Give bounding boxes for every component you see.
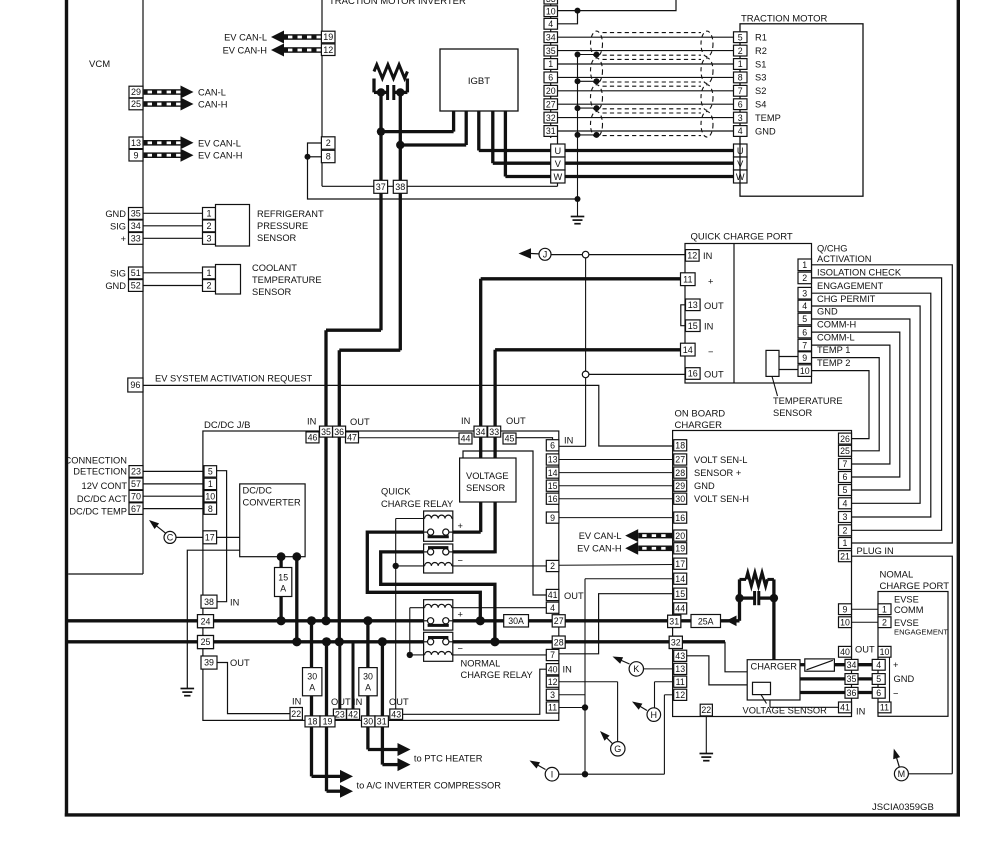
svg-text:2: 2 xyxy=(206,221,211,231)
svg-text:14: 14 xyxy=(675,574,685,584)
svg-text:14: 14 xyxy=(683,345,693,355)
svg-text:CHARGE PORT: CHARGE PORT xyxy=(880,581,950,592)
svg-text:SENSOR: SENSOR xyxy=(773,408,813,418)
svg-text:3: 3 xyxy=(738,113,743,123)
svg-text:1: 1 xyxy=(802,260,807,270)
svg-text:ISOLATION CHECK: ISOLATION CHECK xyxy=(817,268,902,278)
svg-text:7: 7 xyxy=(738,86,743,96)
svg-text:TRACTION MOTOR: TRACTION MOTOR xyxy=(741,14,828,25)
svg-text:43: 43 xyxy=(675,651,685,661)
svg-text:12: 12 xyxy=(675,690,685,700)
svg-text:G: G xyxy=(614,744,621,754)
svg-text:30A: 30A xyxy=(508,616,524,626)
svg-text:33: 33 xyxy=(546,0,556,4)
svg-text:I: I xyxy=(551,769,554,779)
svg-text:5: 5 xyxy=(843,485,848,495)
svg-text:+: + xyxy=(893,660,898,670)
svg-text:H: H xyxy=(651,710,658,720)
svg-text:12: 12 xyxy=(548,677,558,687)
svg-text:17: 17 xyxy=(205,532,215,542)
svg-text:22: 22 xyxy=(291,709,301,719)
svg-text:−: − xyxy=(893,689,898,699)
svg-text:REFRIGERANT: REFRIGERANT xyxy=(257,209,324,219)
svg-text:IN: IN xyxy=(292,697,301,707)
svg-text:CAN-H: CAN-H xyxy=(198,100,227,110)
svg-text:10: 10 xyxy=(800,366,810,376)
svg-text:OUT: OUT xyxy=(506,416,526,426)
svg-text:35: 35 xyxy=(546,46,556,56)
svg-text:CONNECTION: CONNECTION xyxy=(65,455,128,465)
svg-text:9: 9 xyxy=(133,150,138,160)
svg-text:OUT: OUT xyxy=(389,697,409,707)
svg-text:3: 3 xyxy=(843,512,848,522)
svg-text:4: 4 xyxy=(802,301,807,311)
svg-text:S3: S3 xyxy=(755,73,766,83)
svg-text:GND: GND xyxy=(694,481,715,491)
svg-text:2: 2 xyxy=(738,46,743,56)
svg-text:38: 38 xyxy=(395,182,405,192)
svg-text:17: 17 xyxy=(675,559,685,569)
svg-text:EV CAN-L: EV CAN-L xyxy=(198,138,241,148)
svg-text:11: 11 xyxy=(683,274,692,284)
svg-text:V: V xyxy=(737,159,744,169)
svg-text:COMM-L: COMM-L xyxy=(817,333,855,343)
svg-text:2: 2 xyxy=(550,561,555,571)
svg-text:44: 44 xyxy=(675,604,685,614)
svg-text:4: 4 xyxy=(738,126,743,136)
svg-text:6: 6 xyxy=(802,327,807,337)
svg-text:22: 22 xyxy=(701,705,711,715)
svg-text:37: 37 xyxy=(376,182,386,192)
svg-text:OUT IN: OUT IN xyxy=(331,697,362,707)
svg-text:+: + xyxy=(458,521,463,531)
svg-text:35: 35 xyxy=(847,674,857,684)
svg-text:44: 44 xyxy=(461,434,471,444)
svg-text:33: 33 xyxy=(131,234,141,244)
svg-text:29: 29 xyxy=(131,87,141,97)
svg-text:28: 28 xyxy=(675,468,685,478)
svg-text:30: 30 xyxy=(675,494,685,504)
svg-text:9: 9 xyxy=(843,604,848,614)
svg-text:47: 47 xyxy=(347,433,357,443)
svg-text:A: A xyxy=(365,683,371,693)
svg-text:6: 6 xyxy=(548,73,553,83)
svg-text:7: 7 xyxy=(843,459,848,469)
svg-text:CHARGE RELAY: CHARGE RELAY xyxy=(381,499,453,509)
svg-text:15: 15 xyxy=(548,481,558,491)
svg-text:41: 41 xyxy=(548,590,558,600)
svg-text:OUT: OUT xyxy=(855,644,875,654)
svg-text:V: V xyxy=(555,159,562,169)
svg-text:5: 5 xyxy=(738,32,743,42)
svg-text:CAN-L: CAN-L xyxy=(198,88,226,98)
svg-text:25: 25 xyxy=(840,446,850,456)
svg-text:EV CAN-L: EV CAN-L xyxy=(224,32,267,42)
svg-text:CONVERTER: CONVERTER xyxy=(243,498,301,508)
svg-text:36: 36 xyxy=(847,688,857,698)
svg-text:ON BOARD: ON BOARD xyxy=(675,409,726,420)
svg-text:13: 13 xyxy=(548,455,558,465)
svg-text:OUT: OUT xyxy=(350,417,370,427)
svg-text:13: 13 xyxy=(688,300,698,310)
svg-text:11: 11 xyxy=(676,677,685,687)
svg-text:27: 27 xyxy=(554,616,564,626)
svg-text:GND: GND xyxy=(105,209,126,219)
svg-text:C: C xyxy=(167,533,174,543)
svg-text:46: 46 xyxy=(308,433,318,443)
svg-text:5: 5 xyxy=(802,314,807,324)
svg-text:31: 31 xyxy=(669,617,679,627)
svg-text:EV CAN-H: EV CAN-H xyxy=(223,45,267,55)
svg-text:13: 13 xyxy=(675,664,685,674)
svg-text:6: 6 xyxy=(550,440,555,450)
svg-text:SENSOR: SENSOR xyxy=(257,233,297,243)
svg-text:8: 8 xyxy=(326,152,331,162)
svg-text:40: 40 xyxy=(840,647,850,657)
svg-text:IN: IN xyxy=(703,251,712,261)
svg-text:1: 1 xyxy=(882,604,887,614)
svg-text:W: W xyxy=(554,172,563,182)
svg-text:3: 3 xyxy=(802,288,807,298)
svg-text:18: 18 xyxy=(675,440,685,450)
svg-text:3: 3 xyxy=(550,690,555,700)
svg-text:COMM-H: COMM-H xyxy=(817,320,856,330)
svg-text:12V CONT: 12V CONT xyxy=(82,481,128,491)
svg-text:EV CAN-H: EV CAN-H xyxy=(577,544,621,554)
svg-text:IGBT: IGBT xyxy=(468,76,490,87)
svg-text:15: 15 xyxy=(278,573,288,583)
svg-text:19: 19 xyxy=(323,32,333,42)
svg-text:38: 38 xyxy=(204,597,214,607)
svg-text:20: 20 xyxy=(546,86,556,96)
svg-text:27: 27 xyxy=(675,455,685,465)
svg-text:15: 15 xyxy=(688,321,698,331)
svg-text:OUT: OUT xyxy=(704,370,724,380)
svg-text:52: 52 xyxy=(131,281,141,291)
svg-text:SIG: SIG xyxy=(110,268,126,278)
svg-text:U: U xyxy=(555,146,562,156)
svg-text:IN: IN xyxy=(704,322,713,332)
svg-text:27: 27 xyxy=(546,99,556,109)
svg-text:J: J xyxy=(543,250,548,260)
svg-text:10: 10 xyxy=(840,617,850,627)
svg-text:1: 1 xyxy=(548,59,553,69)
svg-text:GND: GND xyxy=(817,307,838,317)
svg-text:28: 28 xyxy=(554,637,564,647)
svg-text:S1: S1 xyxy=(755,59,766,69)
svg-text:1: 1 xyxy=(206,209,211,219)
svg-text:SENSOR: SENSOR xyxy=(252,287,292,297)
svg-text:IN: IN xyxy=(230,597,239,607)
svg-text:ENGAGEMENT: ENGAGEMENT xyxy=(817,281,883,291)
svg-text:OUT: OUT xyxy=(704,301,724,311)
svg-text:GND: GND xyxy=(894,674,915,684)
svg-text:15: 15 xyxy=(675,589,685,599)
svg-text:2: 2 xyxy=(326,138,331,148)
svg-text:25A: 25A xyxy=(698,616,714,626)
svg-text:26: 26 xyxy=(840,434,850,444)
svg-text:7: 7 xyxy=(802,340,807,350)
svg-text:M: M xyxy=(898,769,906,779)
svg-text:14: 14 xyxy=(548,468,558,478)
svg-text:34: 34 xyxy=(546,32,556,42)
svg-text:33: 33 xyxy=(489,427,499,437)
svg-text:IN: IN xyxy=(563,665,572,675)
svg-text:13: 13 xyxy=(131,138,141,148)
svg-text:3: 3 xyxy=(206,234,211,244)
svg-text:5: 5 xyxy=(208,467,213,477)
svg-text:34: 34 xyxy=(131,221,141,231)
svg-text:−: − xyxy=(458,556,463,566)
svg-text:32: 32 xyxy=(671,638,681,648)
svg-text:23: 23 xyxy=(335,709,345,719)
svg-text:8: 8 xyxy=(738,73,743,83)
svg-text:DC/DC TEMP: DC/DC TEMP xyxy=(69,507,127,517)
svg-text:9: 9 xyxy=(550,513,555,523)
svg-text:40: 40 xyxy=(548,664,558,674)
svg-text:6: 6 xyxy=(843,472,848,482)
svg-text:96: 96 xyxy=(130,380,140,390)
svg-text:10: 10 xyxy=(880,647,890,657)
svg-text:VOLT SEN-L: VOLT SEN-L xyxy=(694,455,747,465)
svg-text:COOLANT: COOLANT xyxy=(252,263,297,273)
svg-text:43: 43 xyxy=(391,709,401,719)
svg-text:EV CAN-H: EV CAN-H xyxy=(198,151,242,161)
svg-text:SENSOR: SENSOR xyxy=(466,483,506,493)
svg-text:67: 67 xyxy=(131,504,141,514)
svg-text:IN: IN xyxy=(856,707,865,717)
svg-text:23: 23 xyxy=(131,467,141,477)
svg-text:A: A xyxy=(280,584,286,594)
svg-text:5: 5 xyxy=(876,674,881,684)
svg-text:42: 42 xyxy=(348,709,358,719)
svg-text:S4: S4 xyxy=(755,100,766,110)
svg-text:ENGAGEMENT: ENGAGEMENT xyxy=(894,628,948,637)
svg-text:7: 7 xyxy=(550,650,555,660)
svg-text:2: 2 xyxy=(802,273,807,283)
svg-text:18: 18 xyxy=(308,717,318,727)
svg-text:31: 31 xyxy=(377,717,387,727)
svg-text:−: − xyxy=(708,347,713,357)
svg-text:DC/DC ACT: DC/DC ACT xyxy=(77,494,127,504)
svg-text:QUICK: QUICK xyxy=(381,487,411,497)
svg-text:TEMPERATURE: TEMPERATURE xyxy=(252,275,322,285)
svg-text:TEMPERATURE: TEMPERATURE xyxy=(773,396,843,406)
svg-text:31: 31 xyxy=(546,126,556,136)
svg-text:30: 30 xyxy=(363,717,373,727)
svg-text:GND: GND xyxy=(105,281,126,291)
svg-text:25: 25 xyxy=(131,99,141,109)
svg-text:8: 8 xyxy=(208,504,213,514)
svg-text:K: K xyxy=(633,664,639,674)
svg-text:TRACTION MOTOR INVERTER: TRACTION MOTOR INVERTER xyxy=(329,0,466,7)
svg-text:34: 34 xyxy=(847,660,857,670)
svg-text:12: 12 xyxy=(323,45,333,55)
svg-text:to A/C INVERTER COMPRESSOR: to A/C INVERTER COMPRESSOR xyxy=(357,781,502,791)
svg-text:+: + xyxy=(708,277,713,287)
svg-text:R2: R2 xyxy=(755,46,767,56)
svg-text:DETECTION: DETECTION xyxy=(73,466,127,476)
svg-text:19: 19 xyxy=(323,717,333,727)
svg-text:32: 32 xyxy=(546,113,556,123)
svg-text:45: 45 xyxy=(505,434,515,444)
svg-text:VCM: VCM xyxy=(89,59,110,70)
svg-text:SENSOR +: SENSOR + xyxy=(694,468,741,478)
svg-text:TEMP 2: TEMP 2 xyxy=(817,358,850,368)
svg-text:4: 4 xyxy=(550,603,555,613)
svg-text:1: 1 xyxy=(843,538,848,548)
svg-text:70: 70 xyxy=(131,491,141,501)
svg-text:16: 16 xyxy=(688,369,698,379)
svg-text:−: − xyxy=(458,644,463,654)
svg-text:PRESSURE: PRESSURE xyxy=(257,221,308,231)
svg-text:4: 4 xyxy=(876,660,881,670)
svg-text:EV SYSTEM ACTIVATION REQUEST: EV SYSTEM ACTIVATION REQUEST xyxy=(155,373,313,383)
svg-text:CHARGER: CHARGER xyxy=(675,420,723,431)
svg-text:24: 24 xyxy=(201,616,211,626)
svg-text:2: 2 xyxy=(206,281,211,291)
svg-text:Q/CHG: Q/CHG xyxy=(817,243,847,253)
svg-text:34: 34 xyxy=(476,427,486,437)
svg-text:DC/DC J/B: DC/DC J/B xyxy=(204,420,250,431)
svg-text:1: 1 xyxy=(738,59,743,69)
svg-text:6: 6 xyxy=(738,99,743,109)
svg-text:12: 12 xyxy=(687,251,697,261)
svg-text:+: + xyxy=(458,610,463,620)
svg-text:6: 6 xyxy=(876,688,881,698)
svg-text:OUT: OUT xyxy=(564,591,584,601)
svg-text:S2: S2 xyxy=(755,86,766,96)
svg-text:36: 36 xyxy=(334,427,344,437)
svg-text:COMM: COMM xyxy=(894,605,923,615)
svg-text:JSCIA0359GB: JSCIA0359GB xyxy=(872,802,934,813)
svg-text:10: 10 xyxy=(546,6,556,16)
svg-text:DC/DC: DC/DC xyxy=(243,486,273,496)
svg-text:35: 35 xyxy=(131,209,141,219)
svg-text:QUICK CHARGE PORT: QUICK CHARGE PORT xyxy=(691,231,793,242)
svg-text:20: 20 xyxy=(675,531,685,541)
svg-text:VOLTAGE: VOLTAGE xyxy=(466,471,509,481)
svg-text:30: 30 xyxy=(307,672,317,682)
svg-text:IN: IN xyxy=(564,436,573,446)
svg-text:IN: IN xyxy=(461,416,470,426)
svg-text:25: 25 xyxy=(201,637,211,647)
svg-text:VOLT SEN-H: VOLT SEN-H xyxy=(694,494,749,504)
svg-text:4: 4 xyxy=(843,498,848,508)
svg-text:PLUG IN: PLUG IN xyxy=(857,546,894,556)
svg-text:51: 51 xyxy=(131,268,141,278)
svg-text:EVSE: EVSE xyxy=(894,595,919,605)
svg-text:30: 30 xyxy=(363,672,373,682)
svg-text:R1: R1 xyxy=(755,33,767,43)
svg-text:35: 35 xyxy=(321,427,331,437)
svg-text:21: 21 xyxy=(840,551,850,561)
svg-text:19: 19 xyxy=(675,543,685,553)
svg-text:TEMP: TEMP xyxy=(755,113,781,123)
svg-text:10: 10 xyxy=(205,491,215,501)
svg-text:OUT: OUT xyxy=(230,658,250,668)
svg-text:16: 16 xyxy=(548,494,558,504)
svg-text:to PTC HEATER: to PTC HEATER xyxy=(414,754,483,764)
svg-text:2: 2 xyxy=(843,525,848,535)
svg-text:2: 2 xyxy=(882,617,887,627)
svg-text:NOMAL: NOMAL xyxy=(880,570,914,581)
svg-text:CHARGER: CHARGER xyxy=(751,662,798,672)
svg-text:1: 1 xyxy=(206,268,211,278)
svg-text:29: 29 xyxy=(675,481,685,491)
svg-text:11: 11 xyxy=(548,703,557,713)
svg-text:57: 57 xyxy=(131,479,141,489)
svg-text:41: 41 xyxy=(840,703,850,713)
svg-text:GND: GND xyxy=(755,126,776,136)
svg-text:+: + xyxy=(121,234,126,244)
svg-text:CHARGE RELAY: CHARGE RELAY xyxy=(461,670,533,680)
svg-text:39: 39 xyxy=(204,658,214,668)
svg-text:9: 9 xyxy=(802,353,807,363)
svg-text:1: 1 xyxy=(208,479,213,489)
svg-text:NORMAL: NORMAL xyxy=(461,658,501,668)
svg-text:A: A xyxy=(309,683,315,693)
svg-text:4: 4 xyxy=(548,19,553,29)
svg-text:11: 11 xyxy=(880,703,889,713)
svg-text:IN: IN xyxy=(307,417,316,427)
svg-text:CHG PERMIT: CHG PERMIT xyxy=(817,294,876,304)
svg-text:16: 16 xyxy=(675,513,685,523)
svg-text:SIG: SIG xyxy=(110,221,126,231)
svg-text:EV CAN-L: EV CAN-L xyxy=(579,531,622,541)
svg-text:EVSE: EVSE xyxy=(894,618,919,628)
svg-text:TEMP 1: TEMP 1 xyxy=(817,345,850,355)
svg-text:ACTIVATION: ACTIVATION xyxy=(817,254,871,264)
